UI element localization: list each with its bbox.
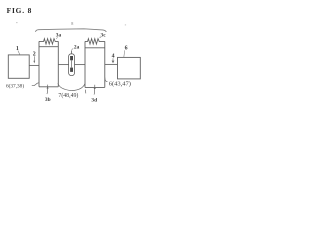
bracket 8 over assembly <box>35 29 106 32</box>
label 7 leader tick <box>84 90 86 94</box>
svg-text:1: 1 <box>16 46 19 52</box>
crystal 2a upper electrode <box>70 56 73 60</box>
crystal 2a capsule <box>69 54 75 76</box>
label 6 leader <box>123 50 126 57</box>
wire crystal to right loop <box>75 64 86 66</box>
label 3a <box>56 37 57 39</box>
svg-text:6: 6 <box>125 45 128 51</box>
left loop bottom wire <box>39 86 58 88</box>
crystal 2a electrode link <box>71 60 73 67</box>
left loop inner top wire <box>39 46 58 48</box>
svg-text:3b: 3b <box>45 97 51 103</box>
label 2 arrow <box>33 56 35 61</box>
right loop left wire <box>84 41 86 87</box>
electrode 3b arrow <box>46 85 49 94</box>
label 3c <box>100 36 102 39</box>
label 1 leader <box>18 51 20 55</box>
node 7 leader right <box>72 84 85 91</box>
box 1 <box>8 55 29 78</box>
svg-text:8: 8 <box>71 21 73 26</box>
right loop bottom wire <box>85 86 105 88</box>
terminal 6(43,47) leader <box>105 78 108 82</box>
terminal 6(37,38) leader <box>32 83 39 86</box>
electrode 3d arrow <box>93 85 96 95</box>
resistor 3a <box>39 39 58 45</box>
speckle near title <box>16 21 18 24</box>
left loop right wire <box>57 41 59 86</box>
svg-text:7(48,49): 7(48,49) <box>58 92 78 99</box>
wire left loop to crystal <box>58 64 68 66</box>
speckle right of bracket <box>125 24 126 25</box>
label 2a leader <box>72 49 74 52</box>
svg-text:3d: 3d <box>91 98 97 104</box>
right loop right wire <box>104 41 106 87</box>
node 7 leader left <box>58 83 72 90</box>
left loop left wire <box>38 41 40 86</box>
crystal 2a top stub <box>71 51 73 54</box>
right loop inner top wire <box>85 47 105 49</box>
svg-text:3c: 3c <box>101 33 107 39</box>
svg-text:FIG. 8: FIG. 8 <box>7 6 33 15</box>
svg-text:2a: 2a <box>74 44 80 50</box>
box 6 <box>118 57 141 79</box>
wire 2 <box>29 64 39 66</box>
svg-text:3a: 3a <box>56 33 62 39</box>
crystal 2a lower electrode <box>70 68 73 72</box>
resistor 3c <box>85 39 105 45</box>
svg-text:6(37,38): 6(37,38) <box>6 83 24 90</box>
label 4 arrow <box>112 58 114 61</box>
wire 4 <box>105 63 118 65</box>
svg-text:6(43,47): 6(43,47) <box>109 80 131 87</box>
